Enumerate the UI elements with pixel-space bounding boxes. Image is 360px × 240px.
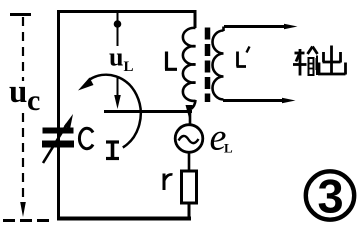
node u_L arrow [114,78,121,109]
wire left [57,10,60,219]
svg-text:c: c [27,84,40,117]
resistor r [182,171,197,203]
wire output top [224,24,298,29]
label L [165,52,177,70]
node uC arrowhead [20,202,26,217]
label 输出 (output) [293,46,346,76]
wire output bottom [223,98,296,103]
svg-text:L: L [124,59,134,75]
wire source to resistor [188,153,191,172]
svg-text:3: 3 [318,170,344,223]
source e_L [175,125,203,153]
svg-text:u: u [9,74,27,110]
svg-text:u: u [109,43,123,72]
transformer core [205,28,211,103]
wire bottom [57,217,191,221]
label u_C [9,74,40,117]
label r [164,174,173,191]
label e_L [210,117,234,159]
capacitor C plate top [43,128,74,134]
label u_L [109,43,134,76]
wire top [57,10,196,13]
label C [79,128,93,148]
capacitor C plate bottom [42,141,74,148]
label I [106,141,119,159]
capacitor C variable arrow [43,114,73,163]
inductor L [183,10,196,109]
svg-text:L: L [224,141,233,156]
inductor L' [213,27,224,101]
node u_L junction dot [114,13,122,46]
node uC top tick [10,13,31,16]
current arrowhead at L bottom [186,105,193,118]
node uC dashed measure line [22,17,24,81]
wire L bottom to source [189,108,192,125]
wire middle (L bottom node) [104,110,192,113]
figure number 3 [306,170,354,223]
label L' [237,47,250,67]
node uC bottom tick [3,219,50,222]
current I loop arrow [78,75,141,148]
wire resistor to bottom [188,203,191,220]
